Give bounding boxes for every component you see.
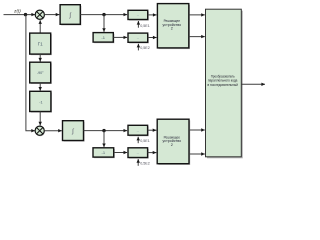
multiplier M1 (35, 10, 45, 20)
wire converter output (241, 83, 265, 85)
wire D1 out 2 to converter (189, 36, 205, 38)
svg-text:2: 2 (171, 143, 173, 147)
svg-text:-1: -1 (39, 101, 42, 105)
wire threshold into S1 (137, 21, 139, 28)
multiplier M2 (35, 126, 45, 136)
inverter block B1 (-1) (93, 33, 114, 44)
wire S1 to decision device D1 (148, 14, 157, 16)
wire threshold into S2 (137, 44, 139, 51)
decision device D2 (157, 119, 190, 165)
comparator block S1 (128, 10, 149, 20)
node junction top (102, 13, 105, 16)
wire B1 to comparator S2 (113, 36, 127, 38)
comparator block S4 (128, 148, 149, 159)
wire junction down to inverter B1 (103, 15, 105, 32)
parallel-to-serial converter block (206, 9, 243, 158)
node junction bottom (102, 129, 105, 132)
wire M1 reference up from G1 (39, 20, 41, 33)
wire G1 down to phase shifter P1 (39, 54, 41, 61)
integrator block U1 (60, 5, 81, 26)
wire P1 down to block P2 (39, 83, 41, 91)
svg-text:0,5E2: 0,5E2 (140, 46, 150, 50)
wire left vertical to bottom branch (26, 15, 35, 131)
svg-text:Г1: Г1 (38, 42, 43, 47)
svg-text:-90°: -90° (37, 71, 44, 75)
wire D2 out 2 to converter (189, 153, 205, 155)
svg-text:--: -- (137, 151, 139, 155)
svg-text:--: -- (137, 14, 139, 18)
integrator block U2 (63, 121, 85, 142)
wire D1 out 1 to converter (189, 14, 205, 16)
phase shifter block P1 (-90deg) (30, 62, 52, 84)
svg-text:--: -- (137, 36, 139, 40)
wire junction down to inverter B2 (103, 131, 105, 148)
wire threshold into S3 (137, 137, 139, 143)
wire S3 to decision device D2 (148, 129, 157, 131)
wire P2 down to multiplier M2 (39, 112, 41, 126)
generator block G1 (30, 33, 52, 55)
wire M1 to integrator 1 (44, 14, 59, 16)
svg-text:∫: ∫ (68, 12, 71, 19)
svg-text:2: 2 (171, 27, 173, 31)
inverter block B2 (-1) (93, 148, 115, 158)
svg-text:0,5E1: 0,5E1 (140, 24, 150, 28)
wire D2 out 1 to converter (189, 129, 205, 131)
wire M2 to integrator 2 (44, 130, 62, 132)
decision device D1 (157, 4, 190, 50)
node input junction (24, 13, 27, 16)
svg-text:в последовательный: в последовательный (208, 83, 238, 87)
wire integrator 2 to comparator S3 (84, 130, 128, 132)
svg-text:0,5E1: 0,5E1 (140, 139, 150, 143)
svg-text:z(t): z(t) (13, 8, 21, 13)
comparator block S2 (128, 33, 149, 43)
svg-text:∫: ∫ (71, 128, 74, 135)
wire S2 to decision device D1 (148, 37, 157, 39)
comparator block S3 (128, 125, 149, 136)
wire B2 to comparator S4 (114, 152, 127, 154)
svg-text:0,5E2: 0,5E2 (140, 162, 150, 166)
wire threshold into S4 (137, 159, 139, 166)
wire integrator 1 to comparator S1 (80, 14, 127, 16)
wire input horizontal (4, 14, 36, 16)
block P2 (-1) (30, 91, 52, 112)
wire S4 to decision device D2 (148, 152, 157, 154)
svg-text:--: -- (137, 129, 139, 133)
